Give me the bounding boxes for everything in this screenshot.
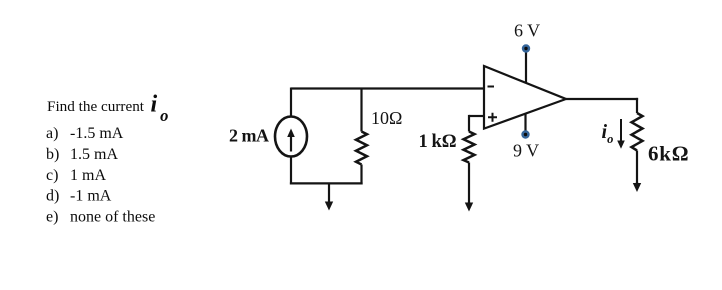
wire: 10-ohm resistor top lead — [360, 89, 362, 132]
wire: 6k-ohm resistor top lead — [636, 98, 638, 113]
current source I1 (2 mA) — [275, 117, 307, 157]
svg-text:1 mA: 1 mA — [70, 167, 106, 184]
svg-text:2 mA: 2 mA — [229, 126, 269, 146]
svg-text:-1.5 mA: -1.5 mA — [70, 125, 124, 142]
wire: 1k-ohm resistor bottom lead — [468, 163, 470, 204]
ground arrow below 1k-ohm resistor — [465, 202, 473, 212]
svg-text:b): b) — [46, 146, 59, 163]
svg-text:6kΩ: 6kΩ — [648, 142, 689, 166]
wire: 1k-ohm resistor top lead — [468, 115, 470, 132]
resistor 6kohm zigzag — [632, 113, 643, 151]
resistor 10ohm zigzag — [356, 132, 367, 165]
svg-text:io: io — [602, 121, 614, 146]
wire: current source top lead — [290, 88, 292, 118]
wire: 6k-ohm resistor bottom lead — [636, 151, 638, 185]
svg-text:c): c) — [46, 167, 58, 184]
svg-text:io: io — [151, 92, 169, 126]
svg-text:9 V: 9 V — [513, 141, 539, 161]
svg-text:e): e) — [46, 208, 58, 225]
svg-text:d): d) — [46, 188, 59, 205]
svg-text:a): a) — [46, 125, 58, 142]
node dot: +6V supply terminal — [522, 44, 530, 52]
wire: top rail from current source to op-amp inverting input — [291, 87, 484, 89]
svg-text:none of these: none of these — [70, 208, 155, 225]
resistor 1kohm zigzag — [464, 132, 475, 163]
node dot: -9V supply terminal — [521, 130, 529, 138]
svg-text:Find the current: Find the current — [47, 98, 145, 115]
ground arrow below 6k-ohm resistor — [633, 182, 641, 192]
wire: -9V supply lead from op-amp bottom — [524, 113, 526, 135]
wire: current source bottom lead — [290, 157, 292, 185]
wire: op-amp output to 6k-ohm resistor — [566, 98, 638, 100]
wire: op-amp non-inverting input lead — [469, 115, 484, 117]
wire: 10-ohm resistor bottom lead — [360, 165, 362, 185]
svg-text:1.5 mA: 1.5 mA — [70, 146, 118, 163]
svg-text:-1 mA: -1 mA — [70, 188, 112, 205]
ground arrow below current-source rail — [325, 183, 333, 210]
wire: bottom rail between current source and 10-ohm resistor — [290, 182, 363, 184]
op-amp U1 — [484, 66, 566, 129]
wire: +6V supply lead into op-amp top — [525, 51, 527, 83]
svg-text:6 V: 6 V — [514, 20, 540, 40]
current arrow io beside 6k-ohm resistor — [617, 119, 625, 149]
svg-text:1 kΩ: 1 kΩ — [419, 132, 457, 152]
svg-text:10Ω: 10Ω — [371, 108, 402, 128]
